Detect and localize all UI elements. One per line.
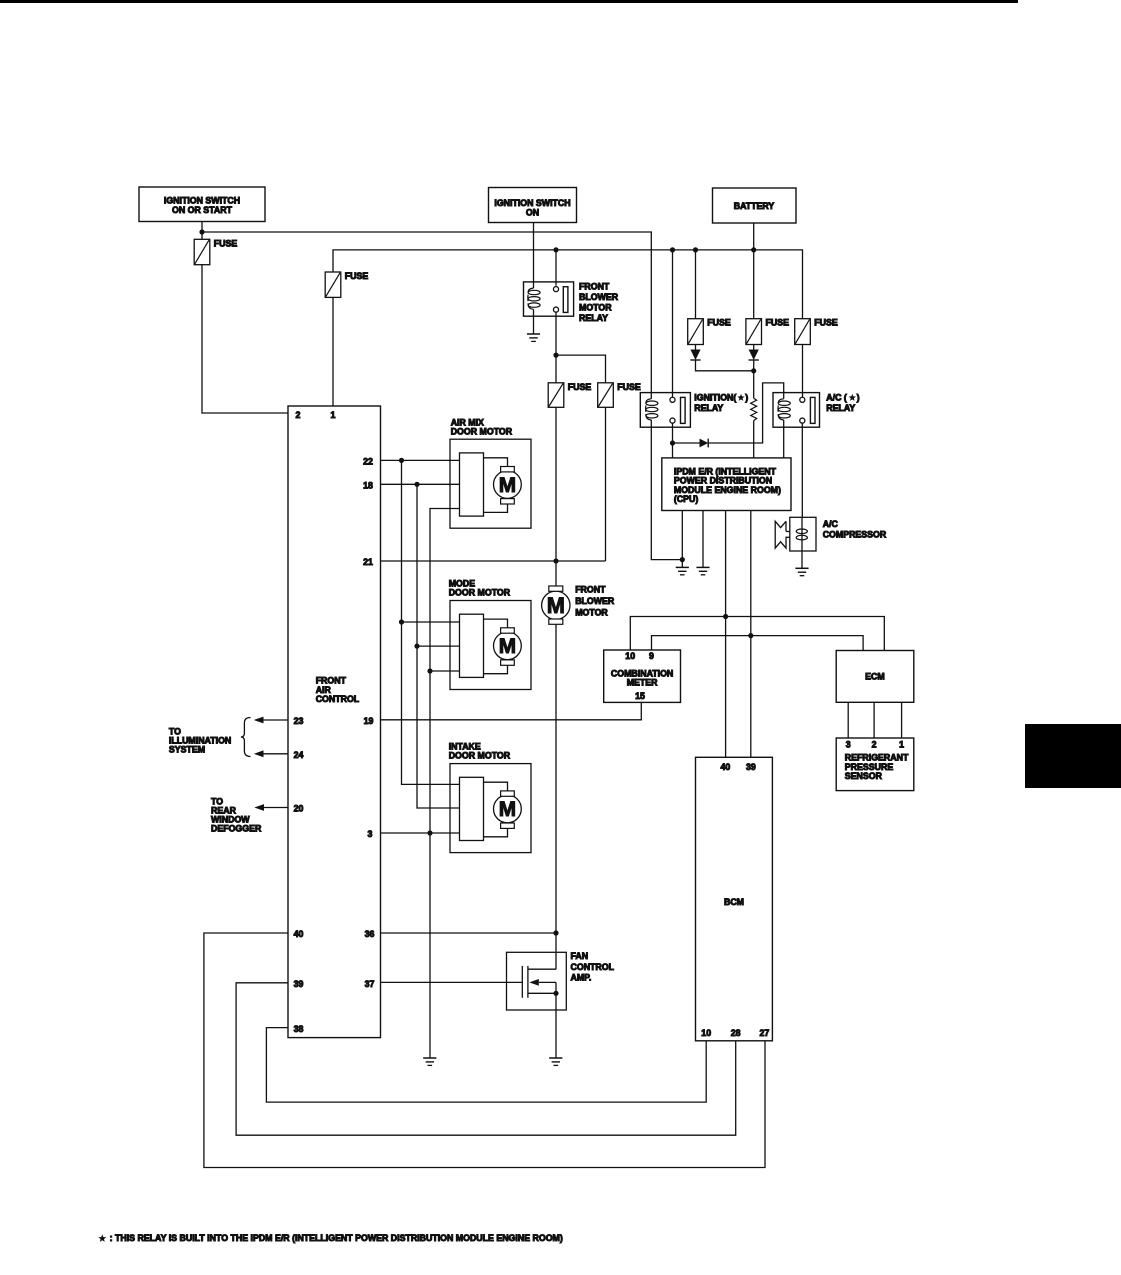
svg-text:METER: METER xyxy=(627,678,658,688)
svg-text:DEFOGGER: DEFOGGER xyxy=(211,823,262,833)
svg-text:3: 3 xyxy=(368,829,373,839)
svg-text:M: M xyxy=(547,593,565,618)
relay K1: FRONT BLOWER MOTOR RELAY xyxy=(524,282,574,316)
svg-text:DOOR MOTOR: DOOR MOTOR xyxy=(451,426,513,436)
wire: pin 37 to fan control amp gate xyxy=(381,981,523,983)
wire: pin 24 to illumination system (arrow) xyxy=(264,753,289,755)
module U3: FAN CONTROL AMP with MOSFET Q1 xyxy=(507,952,567,1010)
node: pin 22 branch to mode/intake motors xyxy=(399,458,404,463)
svg-text:IGNITION SWITCH: IGNITION SWITCH xyxy=(494,198,570,208)
node: pin 18 net at mode motor xyxy=(414,644,419,649)
svg-text:SENSOR: SENSOR xyxy=(845,771,883,781)
svg-text:RELAY: RELAY xyxy=(826,403,855,413)
diode D2 (under fuse F6) xyxy=(753,345,755,350)
svg-text:15: 15 xyxy=(635,691,645,701)
relay K3: A/C(*) RELAY xyxy=(773,393,820,428)
fuse F6 (battery feed) xyxy=(746,319,762,345)
svg-text:FUSE: FUSE xyxy=(345,271,369,281)
svg-text:FAN: FAN xyxy=(571,951,589,961)
fuse F3 (blower motor feed) xyxy=(555,355,557,383)
ground: IPDM E/R pin 1 xyxy=(676,566,689,568)
wire: pin 36 to blower motor node xyxy=(381,932,557,934)
wire: mode door motor wire 3 xyxy=(430,670,460,672)
node: IPDM/BCM 40 net on meter-ECM line xyxy=(723,614,728,619)
wire: pin 21 to fuse F4 xyxy=(381,560,606,562)
node: relay contact output to fuses F3/F4 xyxy=(553,353,558,358)
svg-text:39: 39 xyxy=(294,979,304,989)
fuse F7 (A/C relay feed) xyxy=(795,319,811,345)
svg-text:20: 20 xyxy=(294,804,304,814)
svg-text:(CPU): (CPU) xyxy=(674,494,699,504)
svg-text:M: M xyxy=(499,798,516,821)
node: blower motor low side at pin 36 xyxy=(553,930,558,935)
svg-text:MOTOR: MOTOR xyxy=(575,608,608,618)
component: A/C COMPRESSOR xyxy=(790,517,816,551)
svg-text:FRONT: FRONT xyxy=(579,282,610,292)
wire: IPDM output to combination meter line and BCM pin 39 xyxy=(750,511,752,758)
wire: diode D1 to battery-diode node xyxy=(696,360,754,371)
wire: pin 20 to rear window defogger (arrow) xyxy=(264,807,288,809)
module U2: FRONT AIR CONTROL xyxy=(288,406,381,1038)
wire: fuse F4 down to pin 21 line xyxy=(605,407,607,561)
wire: ignition relay contact to diode node xyxy=(672,423,674,443)
wire: node to fuse F4 xyxy=(556,355,606,383)
wire: combination meter pin 10 to ECM line xyxy=(630,617,884,651)
motor M4: FRONT BLOWER MOTOR xyxy=(542,591,570,619)
svg-text:CONTROL: CONTROL xyxy=(571,962,615,972)
svg-text:10: 10 xyxy=(625,651,635,661)
wire: pin 18 net vertical to intake wire 2 xyxy=(417,484,460,808)
wire: fuse F7 to A/C relay contact xyxy=(802,345,804,398)
svg-text:FUSE: FUSE xyxy=(814,318,838,328)
wire: rail down to ignition relay contact xyxy=(672,250,674,397)
relay K2: IGNITION(*) RELAY xyxy=(640,393,690,428)
wire: front blower motor to fan control amp xyxy=(555,624,557,969)
wire: combination meter pin 9 to ECM line xyxy=(652,636,864,651)
svg-text:SYSTEM: SYSTEM xyxy=(169,744,205,754)
wire: fuse F3 to front blower motor xyxy=(555,407,557,586)
svg-text:36: 36 xyxy=(365,929,375,939)
brace: illumination system group xyxy=(241,718,251,757)
svg-text:: THIS RELAY IS BUILT INTO THE: : THIS RELAY IS BUILT INTO THE IPDM E/R … xyxy=(110,1233,563,1243)
fuse F1 (ignition switch on/start feed) xyxy=(201,232,203,239)
wire: ECM to sensor pin 1 xyxy=(901,702,903,738)
svg-text:BLOWER: BLOWER xyxy=(575,596,615,606)
svg-text:ON: ON xyxy=(526,207,539,217)
wire: front blower relay contact to fuse node xyxy=(555,312,557,355)
power source box: IGNITION SWITCH ON OR START xyxy=(139,187,265,222)
wire: diode node to resistor xyxy=(753,371,755,398)
wire: mode door motor wire 2 xyxy=(417,645,460,647)
svg-text:M: M xyxy=(499,474,516,497)
wire: fan control amp source to ground xyxy=(555,993,557,1058)
diode D1 (under fuse F5) xyxy=(695,345,697,350)
node: common net at intake door motor xyxy=(427,830,432,835)
svg-text:DOOR MOTOR: DOOR MOTOR xyxy=(449,588,511,598)
svg-text:FUSE: FUSE xyxy=(214,238,238,248)
svg-text:22: 22 xyxy=(363,457,373,467)
wire: motor common vertical (pin 3 net) xyxy=(430,509,460,1059)
component: REFRIGERANT PRESSURE SENSOR xyxy=(836,738,914,791)
wire: A/C relay coil to IPDM E/R xyxy=(783,427,785,458)
svg-text:1: 1 xyxy=(331,410,336,420)
wire: ign-sw-on/start rail to ignition relay coil xyxy=(202,232,651,393)
svg-text:CONTROL: CONTROL xyxy=(316,694,360,704)
svg-text:COMPRESSOR: COMPRESSOR xyxy=(823,530,887,540)
module U1: IPDM E/R (CPU) xyxy=(662,458,791,511)
svg-text:ON OR START: ON OR START xyxy=(172,205,233,215)
wire: pin 19 to combination meter pin 15 xyxy=(381,702,642,719)
svg-text:39: 39 xyxy=(746,762,756,772)
fuse F2 (front air control pin 1 feed) xyxy=(325,272,341,297)
svg-text:FUSE: FUSE xyxy=(707,318,731,328)
node: IPDM ground junction with ignition relay coil xyxy=(680,557,685,562)
svg-text:18: 18 xyxy=(363,481,373,491)
node: pin 21 line at blower motor feed xyxy=(553,558,558,563)
wire: battery to rail and down to fuse F6 xyxy=(753,223,755,319)
svg-text:A/C: A/C xyxy=(823,519,839,529)
module U5: ECM xyxy=(836,651,914,703)
svg-text:40: 40 xyxy=(721,762,731,772)
wire: mode door motor wire 1 xyxy=(402,621,460,623)
node: common net at mode door motor xyxy=(427,668,432,673)
wire: pin 23 to illumination system (arrow) xyxy=(264,719,289,721)
module U6: BCM xyxy=(696,757,773,1041)
wire: rail down to fuse F5 xyxy=(695,250,697,319)
svg-text:DOOR MOTOR: DOOR MOTOR xyxy=(449,751,511,761)
wire: battery rail (horizontal) xyxy=(333,250,803,319)
wire: front air control pin 40 to BCM pin 27 xyxy=(204,933,765,1168)
svg-text:FUSE: FUSE xyxy=(617,382,641,392)
wire: ignition switch on to front blower motor relay coil xyxy=(533,223,535,282)
svg-text:IGNITION SWITCH: IGNITION SWITCH xyxy=(164,195,240,205)
svg-text:BLOWER: BLOWER xyxy=(579,292,619,302)
svg-text:3: 3 xyxy=(846,740,851,750)
svg-text:10: 10 xyxy=(701,1028,711,1038)
diode D3 (to A/C relay coil) xyxy=(673,442,700,444)
node: battery feed junction on rail xyxy=(751,247,756,252)
svg-text:): ) xyxy=(745,393,748,403)
ground: door motor common xyxy=(423,1057,436,1059)
svg-text:37: 37 xyxy=(365,979,375,989)
svg-text:1: 1 xyxy=(899,740,904,750)
svg-text:23: 23 xyxy=(294,716,304,726)
wire: pin 22 net vertical to mode/intake wire 1 xyxy=(402,460,460,784)
wire: pin 18 to air mix door motor xyxy=(381,483,460,485)
wire: A/C compressor to ground xyxy=(801,551,803,568)
svg-text:40: 40 xyxy=(294,929,304,939)
svg-text:9: 9 xyxy=(649,651,654,661)
wire: ECM to sensor pin 2 xyxy=(873,702,875,738)
wire: IPDM ground pin 1 xyxy=(681,511,683,568)
wire: IPDM output to combination meter line and BCM pin 40 xyxy=(725,511,727,758)
fuse F5 (ignition relay feed) xyxy=(688,319,704,345)
wire: fuse F2 to front air control pin 1 xyxy=(332,297,334,406)
wire: A/C relay contact to A/C compressor xyxy=(801,423,803,518)
svg-text:FUSE: FUSE xyxy=(568,382,592,392)
svg-text:FUSE: FUSE xyxy=(766,318,790,328)
svg-text:A/C (: A/C ( xyxy=(826,393,847,403)
svg-text:RELAY: RELAY xyxy=(694,403,723,413)
ground: fan control amp xyxy=(549,1057,562,1059)
node: IPDM/BCM 39 net on meter-ECM line xyxy=(748,633,753,638)
wire: pin 3 to intake door motor wire 3 xyxy=(381,832,460,834)
wire: diode D3 loop-over to A/C relay coil xyxy=(708,383,784,443)
svg-text:2: 2 xyxy=(296,410,301,420)
footnote: relay built into IPDM E/R xyxy=(98,1234,106,1242)
svg-text:): ) xyxy=(857,393,860,403)
node: diode outputs junction xyxy=(751,368,756,373)
wire: fuse F1 to front air control pin 2 xyxy=(202,265,288,413)
wire: rail to front blower motor relay contact xyxy=(555,250,557,286)
resistor R1 (IPDM sense) xyxy=(751,398,757,420)
wire: node down to IPDM E/R xyxy=(672,443,674,458)
node: ignition relay contact / IPDM pin junction xyxy=(670,440,675,445)
svg-text:ECM: ECM xyxy=(865,672,885,682)
fuse F4 (front air control pin 21 feed) xyxy=(598,383,614,408)
svg-text:FRONT: FRONT xyxy=(575,585,606,595)
wire: resistor R1 to IPDM E/R pin xyxy=(753,421,755,458)
svg-text:24: 24 xyxy=(294,750,304,760)
svg-text:BATTERY: BATTERY xyxy=(734,201,775,211)
node: battery rail to ignition relay contact xyxy=(670,247,675,252)
module U4: COMBINATION METER xyxy=(604,650,681,702)
node: pin 22 net at mode motor xyxy=(399,619,404,624)
ground: front blower motor relay coil xyxy=(527,333,540,335)
wire: ECM to sensor pin 3 xyxy=(847,702,849,738)
svg-text:BCM: BCM xyxy=(724,897,744,907)
node: junction at ignition switch on/start feed xyxy=(199,229,204,234)
svg-text:AMP.: AMP. xyxy=(571,972,592,982)
svg-text:2: 2 xyxy=(872,740,877,750)
ground: IPDM E/R pin 2 xyxy=(696,566,709,568)
svg-text:RELAY: RELAY xyxy=(579,313,608,323)
svg-text:21: 21 xyxy=(363,557,373,567)
wire: pin 22 to air mix door motor xyxy=(381,459,460,461)
node: pin 18 branch xyxy=(414,482,419,487)
ground: A/C compressor xyxy=(795,567,808,569)
wire: ignition relay coil to ground junction xyxy=(651,427,682,559)
wire: ignition switch on/start output to junction xyxy=(201,222,203,233)
wire: front blower relay coil to ground xyxy=(533,316,535,334)
svg-text:28: 28 xyxy=(731,1028,741,1038)
svg-text:38: 38 xyxy=(294,1024,304,1034)
power source box: BATTERY xyxy=(713,188,797,223)
node: battery rail to blower relay contact xyxy=(553,247,558,252)
wire: IPDM ground pin 2 xyxy=(702,511,704,568)
svg-text:27: 27 xyxy=(760,1028,770,1038)
svg-text:19: 19 xyxy=(364,716,374,726)
svg-text:MOTOR: MOTOR xyxy=(579,303,612,313)
node: battery rail to fuse F5 xyxy=(693,247,698,252)
svg-text:M: M xyxy=(499,635,516,658)
svg-text:IGNITION(: IGNITION( xyxy=(694,393,736,403)
wire: front air control pin 38 to BCM pin 10 xyxy=(266,1028,706,1103)
wire: front air control pin 39 to BCM pin 28 xyxy=(236,983,736,1135)
power source box: IGNITION SWITCH ON xyxy=(489,188,577,223)
